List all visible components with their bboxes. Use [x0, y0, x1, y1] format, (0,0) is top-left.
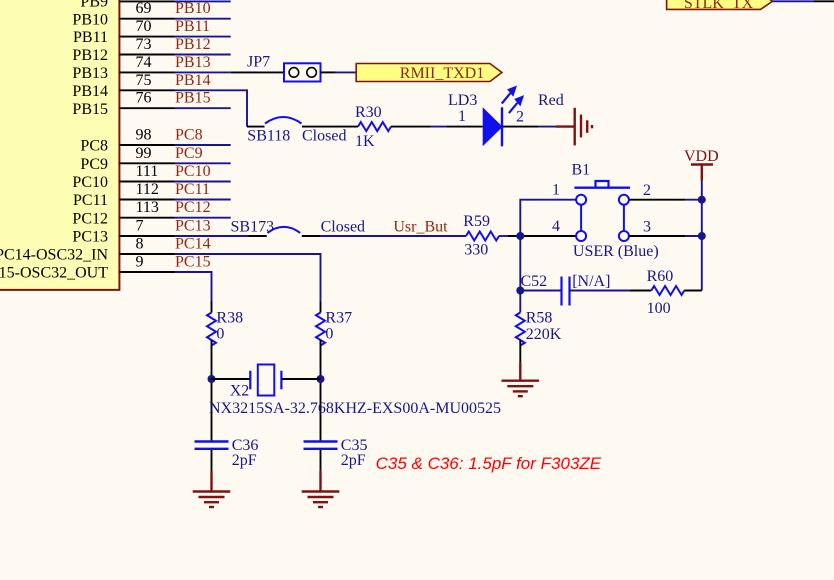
- wire R58 to ground: [519, 340, 521, 362]
- wire junction to C52: [520, 290, 561, 292]
- svg-text:[N/A]: [N/A]: [572, 273, 610, 290]
- svg-text:PC8: PC8: [175, 127, 203, 144]
- svg-text:R58: R58: [526, 310, 553, 327]
- wire crystal pin2: [282, 378, 320, 380]
- wire segment: [430, 126, 447, 128]
- resistor R38: [207, 310, 243, 346]
- wire VDD rail vertical: [701, 181, 703, 291]
- svg-text:PB14: PB14: [175, 72, 211, 89]
- svg-text:3: 3: [643, 218, 651, 235]
- junction at R59/B1 node: [516, 232, 524, 240]
- pin PC10 lead: [119, 181, 174, 183]
- crystal X2: [209, 365, 501, 417]
- wire crystal pin1: [212, 378, 250, 380]
- pin PB14 lead: [119, 89, 174, 91]
- wire SB118 pin2 to R30: [302, 126, 358, 128]
- svg-text:R37: R37: [325, 310, 352, 327]
- svg-text:1K: 1K: [355, 133, 375, 150]
- svg-text:1: 1: [458, 108, 466, 125]
- junction B1 pin3 / rail: [698, 232, 706, 240]
- wire PB10 stub: [175, 18, 231, 20]
- junction crystal left: [208, 375, 216, 383]
- wire STLK_TX to edge: [773, 0, 814, 2]
- wire JP7 to RMII_TXD1 port: [335, 71, 356, 73]
- svg-text:7: 7: [136, 218, 144, 235]
- svg-text:PC14: PC14: [175, 236, 211, 253]
- svg-text:PC11: PC11: [175, 181, 210, 198]
- svg-text:220K: 220K: [526, 326, 562, 343]
- svg-text:VDD: VDD: [684, 148, 719, 165]
- wire R37 to crystal node: [320, 340, 322, 441]
- svg-text:73: 73: [136, 36, 152, 53]
- wire R59 to junction: [499, 235, 508, 237]
- power symbol VDD: [684, 148, 719, 181]
- svg-text:PC15-OSC32_OUT: PC15-OSC32_OUT: [0, 265, 108, 282]
- svg-text:98: 98: [136, 127, 152, 144]
- wire R38 to crystal node: [211, 340, 213, 441]
- svg-text:R30: R30: [355, 104, 382, 121]
- svg-text:PC13: PC13: [175, 218, 211, 235]
- wire PB13 to JP7: [175, 71, 231, 73]
- svg-text:PB12: PB12: [175, 36, 211, 53]
- svg-text:0: 0: [325, 326, 333, 343]
- wire C52 node down to R58: [519, 291, 521, 313]
- svg-text:2pF: 2pF: [341, 452, 366, 469]
- wire LED pin1: [447, 126, 483, 128]
- svg-text:LD3: LD3: [448, 92, 477, 109]
- junction crystal right: [317, 375, 325, 383]
- port STLK_TX: [667, 0, 773, 12]
- wire PB9 stub: [175, 0, 231, 2]
- wire SB173 to R59 net Usr_But: [320, 235, 466, 237]
- wire R60 pin2 to rail: [684, 290, 702, 292]
- svg-text:2pF: 2pF: [232, 452, 257, 469]
- svg-text:X2: X2: [230, 383, 250, 400]
- svg-text:SB118: SB118: [247, 128, 290, 145]
- svg-text:75: 75: [136, 72, 152, 89]
- svg-text:PC8: PC8: [80, 138, 108, 155]
- svg-text:9: 9: [136, 254, 144, 271]
- svg-text:113: 113: [136, 199, 159, 216]
- svg-text:1: 1: [552, 182, 560, 199]
- pin PB11 lead: [119, 36, 174, 38]
- svg-text:69: 69: [136, 0, 152, 17]
- svg-text:STLK_TX: STLK_TX: [684, 0, 754, 12]
- capacitor C52: [521, 273, 611, 306]
- ground chassis (LED): [556, 108, 592, 146]
- svg-text:70: 70: [136, 18, 152, 35]
- svg-text:PC9: PC9: [175, 145, 203, 162]
- pin stub at top-right edge: [813, 0, 834, 2]
- wire B1 pin2: [629, 199, 686, 201]
- svg-text:B1: B1: [572, 161, 591, 178]
- svg-text:NX3215SA-32.768KHZ-EXS00A-MU00: NX3215SA-32.768KHZ-EXS00A-MU00525: [209, 400, 501, 417]
- svg-text:JP7: JP7: [247, 54, 270, 71]
- wire PC9 stub: [175, 162, 231, 164]
- svg-text:PC13: PC13: [72, 229, 108, 246]
- svg-text:Usr_But: Usr_But: [393, 219, 448, 236]
- wire vertical left of B1: [520, 200, 576, 291]
- pin PC12 lead: [119, 217, 174, 219]
- wire PC13 to SB173: [175, 235, 249, 237]
- wire PB15 stub: [175, 107, 231, 109]
- resistor R37: [316, 310, 352, 346]
- svg-text:112: 112: [136, 181, 159, 198]
- svg-text:PB11: PB11: [175, 18, 210, 35]
- svg-text:0: 0: [216, 326, 224, 343]
- jumper JP7 body: [284, 63, 321, 81]
- wire PC14 down to R37: [175, 254, 321, 302]
- wire SB118 pin1: [247, 126, 265, 128]
- wire SB173 pin1: [248, 235, 267, 237]
- svg-text:USER (Blue): USER (Blue): [573, 243, 659, 260]
- wire R37 pin1: [320, 302, 322, 313]
- junction C52 node: [516, 287, 524, 295]
- wire PC11 stub: [175, 199, 231, 201]
- wire segment to ground: [538, 126, 556, 128]
- port RMII_TXD1: [356, 64, 502, 83]
- wire PB12 stub: [175, 54, 231, 56]
- ground power (C35): [302, 471, 340, 507]
- svg-text:PB10: PB10: [175, 0, 211, 17]
- svg-text:100: 100: [647, 300, 671, 317]
- pin PB13 lead: [119, 71, 174, 73]
- wire JP7 pin2: [321, 71, 336, 73]
- wire LED pin2: [503, 126, 538, 128]
- svg-text:2: 2: [643, 182, 651, 199]
- wire PC8 stub: [175, 144, 231, 146]
- svg-text:PC12: PC12: [72, 210, 108, 227]
- wire R30 to LED: [391, 126, 430, 128]
- svg-text:PB13: PB13: [175, 54, 211, 71]
- svg-text:4: 4: [552, 218, 560, 235]
- svg-text:R60: R60: [647, 268, 674, 285]
- svg-text:8: 8: [136, 236, 144, 253]
- svg-text:PB15: PB15: [72, 101, 108, 118]
- svg-text:PB11: PB11: [73, 29, 108, 46]
- svg-text:PC14-OSC32_IN: PC14-OSC32_IN: [0, 247, 108, 264]
- capacitor C36: [195, 437, 259, 469]
- svg-text:PB14: PB14: [72, 83, 108, 100]
- wire PB14 to SB118: [175, 90, 248, 126]
- svg-text:Closed: Closed: [302, 128, 346, 145]
- wire B1 pin3: [629, 235, 686, 237]
- resistor R30: [355, 104, 391, 150]
- solder bridge SB118 arc: [265, 117, 302, 124]
- wire PB11 stub: [175, 36, 231, 38]
- button B1 symbol: [574, 181, 630, 241]
- pin PC14 lead: [119, 253, 174, 255]
- pin PB15 lead: [119, 107, 174, 109]
- wire SB173 pin2: [302, 235, 320, 237]
- svg-text:99: 99: [136, 145, 152, 162]
- capacitor C35: [304, 437, 368, 469]
- svg-text:C52: C52: [521, 273, 548, 290]
- svg-text:PB9: PB9: [80, 0, 108, 10]
- pin PB10 lead: [119, 18, 174, 20]
- svg-text:74: 74: [136, 54, 152, 71]
- MCU block U1 body: [0, 0, 119, 290]
- svg-text:PB10: PB10: [72, 11, 108, 28]
- wire to VDD node: [686, 199, 702, 201]
- wire to right rail: [686, 235, 702, 237]
- pin PC11 lead: [119, 199, 174, 201]
- wire C35 to ground: [320, 450, 322, 471]
- wire JP7 pin1: [231, 71, 284, 73]
- svg-text:PB13: PB13: [72, 65, 108, 82]
- svg-text:R38: R38: [216, 310, 243, 327]
- resistor R58: [516, 310, 562, 346]
- resistor R59: [463, 213, 499, 259]
- svg-text:111: 111: [136, 163, 159, 180]
- svg-text:PC15: PC15: [175, 254, 211, 271]
- pin PC9 lead: [119, 162, 174, 164]
- ground power (C36): [193, 471, 231, 507]
- svg-text:R59: R59: [463, 213, 490, 230]
- resistor R60: [647, 268, 685, 317]
- pin PC8 lead: [119, 144, 174, 146]
- wire R60 pin1: [630, 290, 652, 292]
- svg-text:2: 2: [516, 109, 524, 126]
- svg-text:PC11: PC11: [73, 192, 108, 209]
- pin PB12 lead: [119, 54, 174, 56]
- wire PC12 stub: [175, 217, 231, 219]
- wire PC15 down to R38: [175, 272, 212, 302]
- svg-text:Closed: Closed: [321, 219, 365, 236]
- svg-text:PC12: PC12: [175, 199, 211, 216]
- svg-text:PC10: PC10: [175, 163, 211, 180]
- wire C36 to ground: [211, 450, 213, 471]
- svg-text:PC10: PC10: [72, 174, 108, 191]
- wire R38 pin1: [211, 302, 213, 313]
- svg-text:PB15: PB15: [175, 90, 211, 107]
- svg-text:RMII_TXD1: RMII_TXD1: [400, 65, 484, 82]
- junction B1 pin2 / VDD: [698, 196, 706, 204]
- ground power (R58): [502, 362, 540, 396]
- LED LD3: [483, 86, 524, 147]
- svg-text:C35 & C36: 1.5pF for F303ZE: C35 & C36: 1.5pF for F303ZE: [376, 454, 602, 473]
- svg-text:PB12: PB12: [72, 47, 108, 64]
- pin PC13 lead: [119, 235, 174, 237]
- wire C52 to R60: [570, 290, 630, 292]
- svg-text:76: 76: [136, 90, 152, 107]
- svg-text:330: 330: [464, 242, 488, 259]
- svg-text:Red: Red: [538, 92, 564, 109]
- wire junction to B1 pin4: [508, 235, 576, 237]
- pin PC15 lead: [119, 271, 174, 273]
- wire PC10 stub: [175, 181, 231, 183]
- pin PB9 lead: [119, 0, 174, 2]
- solder bridge SB173 arc: [268, 227, 301, 233]
- svg-text:PC9: PC9: [80, 156, 108, 173]
